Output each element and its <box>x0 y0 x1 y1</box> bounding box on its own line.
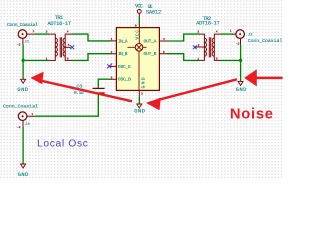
svg-text:1: 1 <box>31 112 33 116</box>
svg-text:OUT_A: OUT_A <box>144 38 157 44</box>
transformer TR1 ADT16-1T <box>46 15 72 61</box>
svg-text:~2: ~2 <box>236 41 240 45</box>
ground symbol under U1 <box>134 104 145 115</box>
connector J4 Conn_Coaxial (Local Osc) <box>3 104 38 129</box>
text note Local Osc <box>37 138 89 149</box>
svg-text:OSC_B: OSC_B <box>118 77 131 83</box>
wire J2 shield down to GND <box>240 45 242 82</box>
svg-text:2: 2 <box>111 50 113 54</box>
transformer TR2 ADT16-1T <box>196 16 221 60</box>
ground symbol right (J2) <box>236 81 247 93</box>
svg-text:1: 1 <box>197 57 199 61</box>
svg-text:1: 1 <box>33 29 35 33</box>
svg-text:GND: GND <box>18 172 29 178</box>
svg-text:~2: ~2 <box>17 42 21 46</box>
svg-text:2: 2 <box>198 43 200 47</box>
svg-text:1: 1 <box>230 29 232 33</box>
svg-text:Conn_Coaxial: Conn_Coaxial <box>7 22 38 28</box>
annotation arrow at middle ground <box>146 79 237 110</box>
svg-text:5: 5 <box>163 50 165 54</box>
no-connect X on U1 pin 7 OSC_E <box>107 64 111 68</box>
ground symbol bottom (J4) <box>18 164 29 178</box>
svg-text:4: 4 <box>216 29 218 33</box>
annotation text Noise <box>230 107 274 123</box>
wire C3 bottom to J4 pin1 <box>35 94 98 117</box>
svg-text:3: 3 <box>141 92 143 96</box>
svg-text:6: 6 <box>216 57 218 61</box>
svg-text:4: 4 <box>67 29 69 33</box>
wire U1 pin3 to GND <box>138 97 140 105</box>
svg-text:6: 6 <box>111 75 113 79</box>
wire J1 shield down to GND <box>22 45 24 80</box>
wire TR1 sec top to U1 IN_A <box>72 34 111 41</box>
wire U1 OUT_A to TR2 primary top <box>167 34 200 41</box>
svg-text:GND: GND <box>17 87 28 93</box>
connector J1 Conn_Coaxial <box>7 22 38 46</box>
ground symbol left (J1) <box>17 79 28 93</box>
wire U1 OUT_B to TR2 primary bottom <box>167 54 200 61</box>
wire left junction to TR1 primary bottom <box>23 59 48 61</box>
svg-text:3: 3 <box>197 29 199 33</box>
svg-text:1: 1 <box>46 57 48 61</box>
svg-text:J4: J4 <box>25 123 30 127</box>
capacitor C3 <box>74 84 105 96</box>
annotation arrow at right ground <box>244 69 282 86</box>
svg-text:SA612: SA612 <box>146 9 161 15</box>
svg-text:5: 5 <box>68 43 70 47</box>
svg-text:~2: ~2 <box>17 125 21 129</box>
svg-text:IN_B: IN_B <box>118 51 128 57</box>
svg-text:Local Osc: Local Osc <box>37 138 89 149</box>
no-connect X on TR1 pin 5 <box>70 45 74 49</box>
annotation arrow at left ground <box>30 72 132 102</box>
svg-text:Noise: Noise <box>230 107 274 123</box>
svg-text:J1: J1 <box>24 40 29 44</box>
svg-text:GND: GND <box>141 77 147 88</box>
svg-text:6: 6 <box>67 57 69 61</box>
wire U1 OSC_B to C3 top <box>98 79 110 88</box>
wire VCC to U1 pin8 <box>138 17 140 26</box>
svg-text:IN_A: IN_A <box>118 38 128 44</box>
power symbol VCC <box>135 4 143 17</box>
svg-text:J2: J2 <box>248 34 253 38</box>
svg-text:Conn_Coaxial: Conn_Coaxial <box>3 104 38 110</box>
IC U1 SA612 <box>110 4 167 97</box>
connector J2 Conn_Coaxial <box>230 29 283 46</box>
svg-text:OSC_E: OSC_E <box>118 64 131 70</box>
svg-text:1: 1 <box>111 37 113 41</box>
svg-text:ADT16-1T: ADT16-1T <box>48 21 72 27</box>
svg-text:GND: GND <box>236 87 247 93</box>
svg-text:4: 4 <box>163 37 165 41</box>
junction node right <box>239 59 242 62</box>
svg-text:VCC: VCC <box>135 4 143 10</box>
svg-text:GND: GND <box>134 109 145 115</box>
wire TR2 secondary top to J2 pin1 <box>221 33 234 35</box>
wire J4 shield down to GND <box>22 127 24 164</box>
wire TR2 secondary bottom to right junction <box>221 59 241 61</box>
wire TR1 sec bottom to U1 IN_B <box>72 54 111 61</box>
wire J1 pin1 to TR1 primary top <box>35 33 49 35</box>
svg-text:OUT_B: OUT_B <box>144 51 157 57</box>
svg-text:TR1: TR1 <box>55 15 63 21</box>
svg-text:8: 8 <box>135 24 137 28</box>
svg-text:3: 3 <box>46 29 48 33</box>
svg-text:ADT16-1T: ADT16-1T <box>196 21 220 27</box>
no-connect X on TR2 pin 2 <box>193 45 197 49</box>
svg-text:Conn_Coaxial: Conn_Coaxial <box>248 38 283 44</box>
junction node left <box>22 59 25 62</box>
